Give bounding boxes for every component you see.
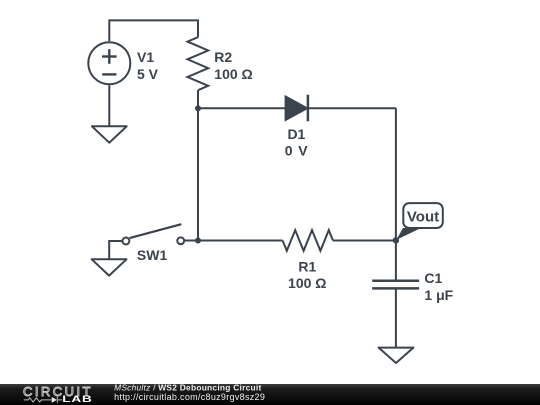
- svg-text:http://circuitlab.com/c8uz9rgv: http://circuitlab.com/c8uz9rgv8sz29: [114, 392, 265, 402]
- svg-text:1 μF: 1 μF: [424, 287, 453, 303]
- svg-text:5 V: 5 V: [137, 66, 159, 82]
- svg-text:R1: R1: [298, 259, 316, 275]
- svg-text:LAB: LAB: [62, 395, 92, 404]
- svg-text:SW1: SW1: [137, 247, 168, 263]
- svg-text:C1: C1: [424, 270, 442, 286]
- svg-text:0 V: 0 V: [285, 143, 309, 159]
- svg-text:Vout: Vout: [407, 209, 439, 226]
- svg-text:100 Ω: 100 Ω: [288, 275, 326, 291]
- svg-text:100 Ω: 100 Ω: [214, 66, 252, 82]
- svg-text:R2: R2: [214, 49, 232, 65]
- svg-text:D1: D1: [287, 126, 305, 142]
- svg-text:MSchultz / WS2 Debouncing Circ: MSchultz / WS2 Debouncing Circuit: [114, 382, 261, 392]
- svg-text:V1: V1: [137, 49, 154, 65]
